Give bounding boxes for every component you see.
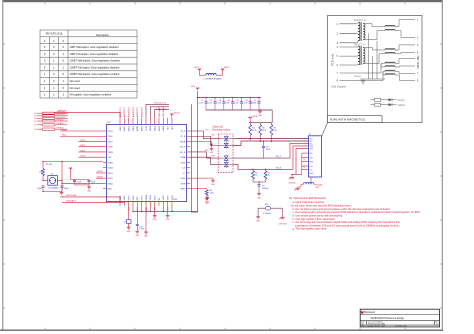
svg-text:1500pF: 1500pF (262, 188, 269, 190)
power tee AVDD left (194, 67, 201, 75)
junction dots bottom rail (42, 161, 172, 212)
wire LED1 link (62, 195, 120, 201)
svg-text:Not used: Not used (70, 87, 81, 90)
ground before bead (206, 197, 211, 204)
wire RD+ to damping (190, 150, 220, 158)
svg-text:TXD2: TXD2 (80, 145, 86, 147)
svg-text:L2: L2 (124, 222, 126, 224)
svg-text:TxoutCT +/-: TxoutCT +/- (354, 19, 367, 22)
resistor R6 75 (252, 169, 258, 179)
ground crystal (60, 192, 65, 199)
svg-text:R5 1M: R5 1M (46, 164, 52, 166)
capacitor C8 across (262, 141, 271, 158)
svg-text:INTR: INTR (181, 183, 186, 185)
svg-text:TR7: TR7 (310, 157, 313, 159)
IC bottom net labels (129, 206, 170, 212)
svg-text:49.9: 49.9 (262, 130, 266, 132)
svg-text:TXD0: TXD0 (108, 147, 113, 149)
svg-text:b. Do not place power and grou: b. Do not place power and ground planes … (293, 207, 391, 211)
svg-text:10BT Full-duplex, Auto-negotia: 10BT Full-duplex, Auto-negotiation disab… (70, 53, 119, 56)
wire TD- to damping (190, 135, 220, 146)
svg-text:RXD0: RXD0 (97, 176, 103, 178)
LED yellow (371, 103, 406, 107)
svg-text:g. The high quality caps used.: g. The high quality caps used. (293, 227, 328, 231)
op IC U1 body (107, 124, 187, 201)
svg-text:75: 75 (268, 175, 270, 177)
svg-text:Microsemi: Microsemi (364, 311, 375, 314)
svg-text:VDDA: VDDA (180, 140, 186, 143)
svg-text:1.0: 1.0 (436, 324, 439, 326)
wire RD- to damping (190, 155, 220, 164)
svg-text:CHSGND: CHSGND (288, 182, 296, 184)
svg-text:RD-: RD- (212, 155, 216, 157)
svg-text:RBIAS: RBIAS (145, 194, 148, 200)
capacitor C12 22pF (61, 186, 70, 192)
capacitor C15 0.1uF (135, 206, 145, 237)
svg-text:RD_P: RD_P (180, 147, 186, 149)
svg-text:TD_N: TD_N (180, 136, 186, 138)
capacitor C7 0.1uF (250, 97, 260, 110)
capacitor C9 1500pF (258, 185, 270, 194)
resistor strap PHYAD3 (34, 122, 67, 126)
svg-text:2KV: 2KV (316, 187, 320, 189)
capacitor C6 0.1uF (243, 97, 252, 110)
svg-text:REF2: REF2 (180, 189, 185, 191)
svg-text:VSSA: VSSA (180, 156, 186, 159)
IC right pin names (inside) (180, 131, 186, 191)
svg-text:TXD1: TXD1 (80, 150, 86, 152)
svg-text:RD-: RD- (310, 153, 313, 155)
wire bead left leg (257, 208, 259, 217)
wire LED0 act (62, 200, 124, 203)
svg-text:100BT Full-duplex, Auto-negoti: 100BT Full-duplex, Auto-negotiation disa… (70, 66, 120, 69)
svg-text:(In old case, Irene was used f: (In old case, Irene was used for EMI red… (291, 203, 352, 207)
transformer T2 RX (354, 43, 366, 65)
svg-text:PCB side: PCB side (331, 53, 335, 66)
border ticks right (440, 43, 442, 45)
svg-text:PLLV: PLLV (146, 125, 148, 130)
wire crystal bottom (43, 191, 62, 193)
svg-text:SIGD: SIGD (181, 162, 186, 164)
svg-text:AVDD: AVDD (136, 125, 139, 131)
transformer T1 TX (354, 19, 367, 43)
svg-text:XTAL2: XTAL2 (108, 182, 114, 185)
magnetics right pins 1-8 (417, 18, 419, 83)
ground bottom mid2 (166, 206, 171, 221)
svg-text:22pF: 22pF (37, 188, 42, 190)
svg-text:TD-: TD- (212, 135, 216, 137)
svg-text:VDD4: VDD4 (163, 126, 165, 131)
resistor R1 49.9 (249, 123, 256, 136)
svg-text:75: 75 (303, 159, 305, 161)
svg-text:VSS1: VSS1 (128, 195, 130, 200)
svg-text:VDD2: VDD2 (133, 126, 135, 131)
capacitor C13 (73, 180, 82, 185)
choke CM1 (365, 20, 416, 40)
svg-text:TXD1: TXD1 (108, 141, 113, 143)
capacitor C11 22pF (37, 186, 44, 192)
svg-text:TXD2: TXD2 (108, 136, 113, 138)
wire pair rail TD- (233, 135, 309, 145)
IC bottom pin stubs (120, 202, 172, 206)
ground RBIAS (144, 232, 149, 238)
svg-text:MDC: MDC (62, 135, 67, 137)
svg-text:VSS2: VSS2 (133, 195, 135, 200)
svg-text:AVD5: AVD5 (158, 126, 161, 131)
svg-text:RXD3: RXD3 (108, 173, 113, 175)
ferrite bead L2 to ground (124, 206, 132, 233)
ground ref caps (75, 185, 92, 193)
svg-text:AVD2: AVD2 (127, 126, 130, 131)
wire XTAL1 top (43, 161, 103, 163)
svg-text:PHYAD4: PHYAD4 (57, 118, 64, 121)
svg-text:RXD2: RXD2 (108, 178, 113, 180)
connector shield circuit (298, 177, 324, 189)
svg-text:1M: 1M (39, 172, 42, 174)
resistor damping RD4 (220, 161, 234, 167)
svg-text:All-capable, Auto-negotiation: All-capable, Auto-negotiation enabled (70, 94, 112, 97)
svg-text:100BT Half-duplex, Auto-negoti: 100BT Half-duplex, Auto-negotiation disa… (70, 60, 121, 63)
svg-text:AVD3: AVD3 (140, 126, 143, 131)
resistor R3 130 (270, 123, 277, 136)
IC top pin names (inside) (120, 125, 174, 131)
capacitor C5 0.1uF (234, 97, 243, 110)
option note text (212, 126, 231, 132)
RJ45 magnetics outline box (328, 16, 423, 123)
svg-text:1500pF: 1500pF (354, 76, 362, 78)
wire bundle to J1 pin3 (290, 143, 309, 158)
svg-text:LED1/LINK: LED1/LINK (66, 195, 77, 197)
border ticks left (3, 43, 5, 45)
svg-text:VDD12ARX: VDD12ARX (158, 106, 161, 117)
choke CM3 terminations (377, 59, 415, 81)
LED green (371, 98, 406, 102)
svg-text:f. Use ferromagnetic bond betw: f. Use ferromagnetic bond between digita… (293, 220, 401, 224)
power tee AVDD right (221, 66, 230, 75)
svg-text:100BT Half-duplex, Auto-negoti: 100BT Half-duplex, Auto-negotiation enab… (70, 73, 120, 76)
resistor R7 75 (264, 169, 270, 179)
capacitor C1 0.1uF (199, 97, 208, 110)
svg-text:75: 75 (255, 175, 257, 177)
svg-text:VDD: VDD (191, 86, 196, 88)
wire pair rail TD+ (233, 135, 309, 139)
wire RBIAS down (145, 206, 147, 232)
svg-text:VDD12_PLL: VDD12_PLL (154, 103, 167, 105)
wire reset top-left (54, 113, 120, 118)
svg-text:RD_P: RD_P (276, 156, 282, 158)
svg-text:MDC: MDC (108, 189, 113, 191)
wires left MII group (60, 129, 103, 157)
svg-text:130: 130 (273, 130, 276, 132)
sheet border bottom (0, 329, 443, 331)
wire bottom rail (133, 206, 198, 212)
svg-text:AVDD25TX: AVDD25TX (132, 106, 135, 117)
svg-text:VSC8641XKO Reference Design: VSC8641XKO Reference Design (370, 317, 404, 320)
connector J1 body (309, 134, 322, 177)
svg-text:d. Use simple power points wit: d. Use simple power points with decoupli… (293, 213, 344, 217)
wire bank rail (249, 122, 272, 124)
wire terminated pins ladder (292, 153, 309, 174)
svg-text:VDD12ARX: VDD12ARX (162, 106, 165, 117)
svg-text:49.9: 49.9 (252, 130, 256, 132)
wire bottom bank merge (253, 179, 266, 185)
power tee REFVDD (69, 167, 72, 179)
svg-text:Chs Ground: Chs Ground (332, 85, 347, 89)
svg-text:TXEN: TXEN (108, 152, 114, 154)
svg-text:25.000MHz: 25.000MHz (48, 187, 58, 189)
svg-text:PHYAD3: PHYAD3 (57, 122, 64, 125)
svg-text:PHYCFG [2:0]: PHYCFG [2:0] (46, 32, 63, 36)
wire vertical rail B (197, 91, 199, 212)
svg-text:(1) Optional (For EMI Reductio: (1) Optional (For EMI Reduction; (289, 196, 327, 200)
chassis ground mid (288, 175, 296, 185)
resistor R2 49.9 (259, 123, 266, 136)
svg-text:VSS4: VSS4 (150, 195, 152, 200)
svg-text:Not used: Not used (70, 80, 81, 83)
wire vertical rail A (191, 104, 197, 212)
sheet border left (2, 0, 4, 331)
svg-text:AVD4: AVD4 (149, 126, 152, 131)
svg-text:AVDD25TX: AVDD25TX (136, 106, 139, 117)
ground bottom mid1 (153, 206, 158, 221)
wire bead right leg (282, 208, 284, 217)
svg-text:0.1uF: 0.1uF (76, 182, 82, 184)
svg-text:VSS6: VSS6 (163, 195, 165, 200)
wire pair rail RD+ (233, 156, 290, 158)
svg-text:L1 FERRITE BEAD: L1 FERRITE BEAD (203, 77, 222, 80)
svg-text:RD_N: RD_N (180, 152, 186, 154)
svg-text:RxinCT +/-: RxinCT +/- (354, 43, 366, 46)
svg-text:TXD3: TXD3 (108, 131, 113, 133)
svg-text:VSS3: VSS3 (141, 195, 143, 200)
resistor damping RD3 (220, 155, 234, 161)
svg-text:VDDA: VDDA (252, 115, 258, 118)
svg-text:Date:: Date: (361, 325, 366, 328)
chassis ground bead right (279, 218, 288, 226)
power tee VDD12 top right (171, 114, 173, 116)
resistor damping RD2 (220, 142, 234, 148)
resistor strap PHYCFG2 (34, 112, 68, 115)
crystal X1 (43, 174, 62, 190)
resistor R5 1M (39, 162, 52, 181)
power tee rail B (191, 86, 199, 90)
svg-text:Tuesday, May 02, 2006: Tuesday, May 02, 2006 (367, 326, 386, 328)
wire ref caps rail (71, 179, 90, 181)
svg-text:XTAL1: XTAL1 (108, 161, 114, 164)
wire bundle to J1 pin5 (296, 148, 309, 174)
svg-text:NC2: NC2 (172, 126, 174, 130)
svg-text:AVDD25TX: AVDD25TX (119, 106, 122, 117)
IC left pin names (inside) (108, 131, 115, 191)
svg-text:AVDD25TX: AVDD25TX (141, 106, 144, 117)
inductor L1 ferrite bead (199, 73, 222, 80)
svg-text:1.5K: 1.5K (210, 193, 215, 195)
IC bottom pin names (inside) (120, 194, 174, 200)
wire right pin ground2 (190, 178, 216, 186)
svg-text:RJ45 WITH MAGNETICS: RJ45 WITH MAGNETICS (330, 118, 365, 122)
title block outline (360, 309, 439, 327)
wire pair rail RD- (233, 165, 293, 170)
svg-text:AVDD25TX: AVDD25TX (123, 106, 126, 117)
wire caps to bank (271, 110, 273, 123)
IC top pin stubs (120, 118, 172, 125)
capacitor C14 (88, 180, 96, 187)
wire XTAL2 (61, 161, 103, 192)
svg-text:RD_N: RD_N (276, 167, 282, 169)
svg-text:AVDD: AVDD (224, 66, 230, 69)
IC right pin stubs (187, 131, 191, 189)
svg-text:LED2: LED2 (181, 178, 186, 180)
svg-text:Sheet 1 of 1: Sheet 1 of 1 (398, 325, 408, 328)
svg-text:VDD3: VDD3 (154, 126, 156, 131)
table PHYCFG text (44, 32, 120, 97)
svg-text:PHYAD2: PHYAD2 (57, 127, 64, 130)
svg-text:TR8: TR8 (310, 162, 313, 164)
svg-text:VSS8: VSS8 (172, 195, 174, 200)
chassis ground shield (294, 187, 299, 190)
svg-text:LG+: LG+ (310, 166, 313, 168)
connector J1 pins (310, 139, 314, 176)
svg-text:Damping resistor.: Damping resistor. (212, 129, 231, 132)
svg-text:0.75ohm: 0.75ohm (263, 213, 271, 215)
wires left RX group (96, 171, 103, 178)
diode clamp and ground right (190, 141, 214, 154)
capacitor C3 0.1uF (216, 97, 225, 110)
border ticks top (44, 2, 46, 4)
resistor damping RD1 (220, 136, 234, 142)
resistor strap PHYAD4 (34, 118, 68, 122)
border ticks bottom (44, 328, 46, 330)
svg-text:10BT Half-duplex, Auto-negotia: 10BT Half-duplex, Auto-negotiation disab… (70, 46, 119, 49)
sheet border right (441, 0, 443, 331)
svg-text:AVD1: AVD1 (123, 126, 126, 131)
decoupling caps rail bottom (206, 109, 272, 111)
svg-text:a. Apply Damping resistors): a. Apply Damping resistors) (293, 200, 325, 204)
label box RJ45 WITH MAGNETICS (328, 116, 383, 123)
capacitor C2 0.1uF (208, 97, 217, 110)
resistor strap PHYCFG1 (34, 114, 68, 117)
svg-text:LED0: LED0 (124, 196, 126, 201)
ground bottom bank (257, 194, 262, 200)
wire TD+ to damping (190, 129, 220, 138)
svg-text:75: 75 (303, 167, 305, 169)
svg-text:1000pF: 1000pF (250, 102, 257, 104)
wire top bus 1 (146, 104, 169, 118)
decoupling caps rail top (198, 97, 261, 99)
svg-text:VDD12: VDD12 (174, 113, 180, 115)
ground caps row (258, 110, 263, 117)
svg-text:LED0/ACT: LED0/ACT (66, 200, 77, 203)
svg-text:CHS GND: CHS GND (279, 223, 288, 225)
resistor strap PHYCFG0 (34, 117, 68, 120)
svg-text:TR5: TR5 (310, 148, 313, 150)
resistor strap PHYAD2 (34, 127, 67, 131)
ground bead left (256, 217, 261, 223)
choke CM2 (365, 45, 416, 64)
svg-text:VSS7: VSS7 (167, 195, 169, 200)
svg-text:Description: Description (96, 33, 110, 37)
center tap verticals and bob-smith cap (354, 33, 386, 84)
svg-text:0.1uF: 0.1uF (139, 229, 145, 231)
sheet border top (3, 0, 443, 2)
callout line to connector (322, 123, 328, 137)
svg-text:LED1: LED1 (120, 196, 122, 201)
svg-text:TXD3: TXD3 (80, 140, 86, 142)
svg-text:VDDIO: VDDIO (108, 168, 115, 170)
power tee bank (249, 115, 258, 123)
svg-text:+3.3V: +3.3V (194, 67, 200, 69)
IC left pin stubs (103, 131, 107, 189)
damping resistors dashed box (218, 134, 233, 173)
wire top bus 2 (150, 107, 169, 118)
svg-text:LG-: LG- (310, 169, 313, 171)
inductor FB bead grounds bridge (258, 204, 282, 215)
notes text block (289, 196, 421, 231)
IC top net labels (119, 106, 165, 117)
svg-text:22pF: 22pF (64, 188, 69, 190)
resistor R9 1.5K (190, 189, 214, 205)
svg-text:VDD1: VDD1 (120, 126, 122, 131)
svg-text:AVDD25TX: AVDD25TX (128, 106, 131, 117)
svg-text:TXC: TXC (108, 157, 112, 159)
titleblock fields (361, 320, 439, 327)
table PHYCFG modes (40, 30, 137, 98)
logo Microsemi (361, 310, 376, 314)
svg-text:RXD1: RXD1 (97, 171, 103, 173)
svg-text:TXD0: TXD0 (80, 156, 86, 158)
svg-text:Yellow: Yellow (398, 103, 406, 107)
svg-text:Green: Green (398, 98, 406, 102)
junction dots rails (197, 97, 293, 183)
svg-text:VSS5: VSS5 (154, 195, 156, 200)
svg-text:TD_P: TD_P (180, 131, 186, 133)
wire bundle to J1 pin4 (293, 146, 309, 169)
svg-text:NC1: NC1 (167, 126, 169, 130)
capacitor C4 0.1uF (225, 97, 234, 110)
magnetics left pins 1-8 (336, 22, 377, 83)
wire top bus 3 (155, 109, 169, 118)
